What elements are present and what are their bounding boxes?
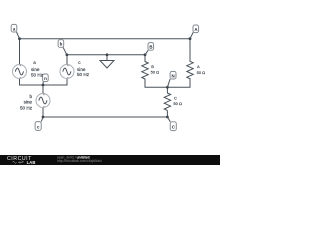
- svg-text:A: A: [197, 64, 200, 69]
- svg-text:LAB: LAB: [27, 160, 36, 165]
- svg-text:B: B: [151, 64, 154, 69]
- svg-text:50 Ω: 50 Ω: [197, 70, 206, 75]
- svg-text:50 Hz: 50 Hz: [20, 105, 33, 110]
- svg-text:sine: sine: [77, 67, 86, 72]
- svg-text:N: N: [172, 73, 175, 78]
- svg-text:50 Hz: 50 Hz: [77, 72, 90, 77]
- svg-text:C: C: [174, 95, 177, 100]
- svg-text:b: b: [29, 94, 32, 99]
- svg-text:a: a: [33, 60, 36, 65]
- svg-text:50 Hz: 50 Hz: [31, 73, 44, 78]
- svg-text:b: b: [60, 42, 63, 47]
- svg-text:sine: sine: [24, 100, 33, 105]
- svg-text:n: n: [44, 76, 47, 81]
- svg-text:B: B: [149, 45, 152, 50]
- svg-text:sine: sine: [31, 67, 40, 72]
- svg-text:50 Ω: 50 Ω: [173, 101, 182, 106]
- svg-text:http://circuitlab.com/c6zjt6kk: http://circuitlab.com/c6zjt6kkv/: [57, 159, 102, 163]
- svg-text:50 Ω: 50 Ω: [151, 70, 160, 75]
